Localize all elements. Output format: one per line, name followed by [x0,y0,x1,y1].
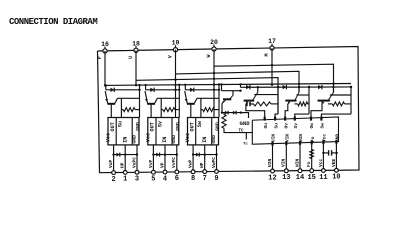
pin 5 terminal [152,170,156,174]
wire pin19 vertical [175,50,177,118]
svg-text:10: 10 [332,174,340,182]
pin 20 lead stub [213,45,215,48]
node rail V junctions [298,83,300,85]
svg-text:IN: IN [202,137,208,143]
resistor R8 on Fo lead [310,150,314,159]
svg-text:GND: GND [215,122,221,131]
wire cell U S to logic pad [275,114,278,119]
wire cell1 base bus [118,97,140,99]
wire cell V right vertical [308,87,310,114]
diode D2 upper [150,88,154,92]
wire cell U right vertical [277,87,279,114]
svg-text:UIN: UIN [267,158,273,167]
capacitor C1 between Vcc and GND leads [323,152,328,154]
wire Tc stub [245,133,247,140]
svg-text:IN: IN [162,137,168,143]
wire Q2 collector to block OUT [150,104,152,117]
svg-text:2: 2 [111,176,115,184]
wire block B3 lead to pin 9 [216,145,218,172]
driver block B1 divider left [115,118,117,145]
pin 19 lead stub [175,45,177,48]
driver block B2 divider right [171,118,173,145]
svg-text:VEE: VEE [331,158,337,167]
wire Q7 emitter down [221,103,223,112]
svg-text:7: 7 [203,175,207,183]
wire cell3 drop from rail A [184,85,186,90]
logic block bottom pad 12 [271,142,273,146]
wire RV left end to base [295,103,298,105]
svg-text:UIN: UIN [271,134,277,142]
pin 14 terminal [298,169,302,173]
wire rail U from pin18 [136,78,278,115]
wire R2 to right vertical [175,109,180,111]
svg-text:6: 6 [175,175,179,183]
driver block B3 divider right [211,118,213,145]
logic block pad Ou [264,117,266,121]
svg-text:VvP: VvP [148,159,154,168]
node cell2 right junctions [178,84,180,86]
wire logic block lead to pin 10 [335,141,337,171]
transistor Q1 upper [105,91,108,103]
svg-text:TC: TC [239,130,245,134]
pin 18 terminal [134,48,138,52]
logic block bottom pad 13 [285,141,287,145]
driver block B2 divider left [155,118,157,145]
wire cell3 base bus [197,97,219,99]
pin 11 terminal [322,169,326,173]
wire RU left end to base [252,103,253,105]
svg-text:Sv: Sv [293,123,299,129]
svg-text:Su: Su [118,121,124,127]
diode D3 upper [190,88,194,92]
wire logic block lead to pin 13 [285,142,287,171]
node bias link junction [239,90,241,92]
node cell W bus junction [350,86,352,88]
svg-text:UP: UP [120,162,126,168]
wire RW ends [345,103,352,105]
node cell V right junction [308,86,310,88]
svg-text:Sw: Sw [197,120,203,127]
svg-text:V: V [167,55,173,58]
node lower anode rail tap [239,83,241,85]
wire block B1 lead to pin 3 [136,145,138,172]
driver block B1 box [108,118,139,145]
logic block box [252,117,338,144]
wire R3 to right vertical [215,109,220,111]
pin 13 terminal [284,169,288,173]
logic block bottom pad 11 [322,140,324,144]
svg-text:13: 13 [282,174,290,182]
pin 2 terminal [112,171,116,175]
svg-text:GND: GND [175,122,181,131]
svg-text:VuPC: VuPC [131,157,137,168]
wire GND lead into logic block [241,113,249,118]
diode DW lower-driver [318,85,322,89]
transistor QU lower [244,100,255,102]
transistor Q7 bias [223,98,231,100]
svg-text:Ow: Ow [309,123,315,129]
svg-text:VwPC: VwPC [211,157,217,168]
svg-text:Fo: Fo [306,161,312,167]
wire RU ends [271,103,278,105]
svg-text:CONNECTION DIAGRAM: CONNECTION DIAGRAM [9,17,97,27]
wire logic block lead to pin 15 [311,141,313,170]
wire R7 bottom to Tc lead [224,128,252,132]
capacitor C2 on QU emitter path [245,103,248,105]
wire Q1 collector to block OUT [110,104,112,117]
svg-text:3: 3 [135,176,139,184]
wire block B3 lead link [193,154,216,156]
transistor QV lower [285,100,296,102]
wire cell2 base bus [157,97,179,99]
svg-text:P: P [97,56,103,59]
resistor R1 upper [123,108,135,112]
wire cell W S to logic pad [321,114,351,119]
node pin18 rail A junction [135,84,137,86]
svg-text:5: 5 [151,176,155,184]
logic block bottom pad 10 [335,140,337,144]
wire pin16 vertical [104,51,106,86]
node pin17 junctions [271,64,273,66]
svg-text:WIN: WIN [298,134,304,142]
wire cell1 drop from rail A [105,85,107,89]
driver block B1 divider right [131,118,133,145]
svg-text:GND: GND [240,120,251,127]
svg-text:20: 20 [210,39,218,46]
svg-text:VIN: VIN [281,158,287,167]
wire Q3 collector to block OUT [190,104,192,117]
wire lower anode rail [241,86,352,88]
svg-text:M: M [264,53,270,56]
wire cell W collector bus [330,94,351,96]
driver block B3 box [188,118,219,145]
diode D1 lower [116,153,119,157]
wire QW collector tap [333,87,335,92]
wire pin17 vertical [271,48,273,85]
pin 19 terminal [173,48,177,52]
resistor R3 upper [203,108,215,112]
pin 6 terminal [175,170,179,174]
pin 4 terminal [163,170,167,174]
wire cell2 S lead [160,98,162,117]
logic block bottom pad 15 [311,140,313,144]
svg-text:Vcc: Vcc [318,158,324,167]
svg-text:12: 12 [268,174,276,182]
wire logic block lead to pin 14 [299,142,301,171]
node cell3 rail A tap [184,84,186,86]
node cell2 rail A tap [144,84,146,86]
svg-text:Sv: Sv [157,120,163,127]
pin 1 terminal [123,171,127,175]
svg-text:16: 16 [101,41,109,48]
svg-text:GND: GND [131,135,137,144]
wire cell3 anode rail [185,89,219,91]
node cell3 right junctions [218,83,220,85]
pin 16 lead stub [104,46,106,49]
pin 7 terminal [203,170,207,174]
wire bias diode row [222,112,246,114]
pin 17 terminal [270,46,274,50]
svg-text:GND: GND [135,122,141,131]
wire logic block lead to pin 11 [322,141,324,171]
wire block B3 lead to pin 7 [204,145,206,172]
svg-text:W: W [206,54,212,57]
wire pin20 vertical [213,49,215,118]
svg-text:WIN: WIN [294,158,300,167]
svg-text:1: 1 [123,176,127,184]
wire cell3 right vertical [218,85,220,118]
svg-text:18: 18 [132,40,140,47]
wire logic block lead to pin 12 [272,142,274,171]
wire bias top link [222,90,241,92]
svg-text:VuP: VuP [108,159,114,168]
pin 8 terminal [191,170,195,174]
diode DU lower-driver [246,85,250,89]
wire cell U collector bus [254,94,278,96]
transistor QW lower [318,100,330,102]
pin 10 terminal [335,168,339,172]
svg-text:OUT: OUT [150,122,156,131]
node cell1 rail A tap [105,84,107,86]
svg-text:15: 15 [307,174,315,182]
wire block B2 lead link [153,154,176,156]
node pin20 rail crossings [213,72,215,74]
wire QV emitter to logic pad [285,104,288,119]
wire block B1 lead link [114,154,137,156]
svg-text:Vcc: Vcc [146,133,152,142]
pin 20 terminal [212,47,216,51]
pin 12 terminal [271,169,275,173]
svg-text:11: 11 [319,174,327,182]
wire block B3 lead to pin 8 [192,145,194,172]
resistor R2 upper [163,108,175,112]
diode D3 lower [196,153,199,157]
svg-text:Vcc: Vcc [185,133,191,142]
svg-text:VvPC: VvPC [171,157,177,168]
wire cell V collector bus [297,94,310,96]
wire block B2 lead to pin 4 [164,145,166,172]
transistor Q3 upper [185,91,188,103]
svg-text:WP: WP [199,162,205,168]
svg-text:9: 9 [214,175,218,183]
svg-text:8: 8 [191,175,195,183]
resistor RW lower [332,102,344,106]
wire QU emitter to logic pad [246,104,265,119]
wire rail A horizontal [105,84,351,86]
wire R1 to right vertical [135,109,140,111]
svg-text:4: 4 [163,175,167,183]
node rail-A pin16 junction [104,84,106,86]
diode DV lower-driver [283,85,287,89]
wire QW emitter to logic pad [311,104,322,119]
wire cell1 S lead [120,98,122,117]
node cell U right junction [277,86,279,88]
driver block B3 divider left [195,118,197,145]
node lead link junctions [192,153,194,155]
svg-text:Ou: Ou [263,123,269,129]
svg-text:14: 14 [296,174,304,182]
svg-text:Su: Su [273,123,279,129]
wire cell2 anode rail [146,89,180,91]
node cell1 right junctions [138,84,140,86]
logic block pad Ov [284,117,286,121]
wire QV collector tap [298,87,300,92]
svg-text:19: 19 [172,40,180,47]
svg-text:Ov: Ov [283,123,289,129]
svg-text:17: 17 [268,38,276,45]
wire cell1 anode rail [106,89,140,91]
wire bias collector riser [221,85,223,91]
diode D8 bias [233,111,236,115]
wire block B1 lead to pin 1 [124,145,126,173]
wire QU collector tap [257,87,259,92]
wire cell2 right vertical [178,85,180,118]
node cell W right junction [350,86,352,88]
wire RW left end to base [328,103,332,105]
resistor R7 bias [222,114,226,128]
node cell U bus junctions [277,86,279,88]
wire cell1 right vertical [139,85,141,117]
node rail W junctions [332,82,334,84]
svg-text:U: U [128,56,134,59]
resistor RU lower [254,102,272,106]
wire block B1 lead to pin 2 [113,145,115,173]
logic block pad Sw [320,117,322,121]
pin 17 lead stub [271,44,273,47]
logic block pad Sv [294,117,296,121]
diode D7 bias [225,111,228,115]
wire pin18 vertical [135,50,137,85]
pin 3 terminal [135,170,139,174]
node bias diode row junctions [221,111,223,113]
node QU collector tap [257,86,259,88]
pin 16 terminal [103,49,107,53]
wire lower anode rail drop from rail A [240,84,242,87]
svg-text:Vcc: Vcc [106,133,112,142]
IC package outline [98,47,360,173]
logic block bottom pad 14 [299,141,301,145]
wire R7 top link [223,113,225,115]
wire cell2 drop from rail A [145,85,147,90]
transistor Q2 upper [145,91,148,103]
wire cell V S to logic pad [295,114,309,119]
node bias rail A tap [220,83,222,85]
wire rail V from pin19 [176,71,300,92]
wire cell3 S lead [200,98,202,117]
diode D1 upper [111,88,115,92]
wire rail W from pin20 [214,64,334,92]
pin 9 terminal [215,170,219,174]
pin 15 terminal [310,169,314,173]
logic block pad Ow [310,117,312,121]
diode D2 lower [156,153,159,157]
node pin19 rail crossings [174,78,176,80]
svg-text:Tc: Tc [243,143,248,147]
svg-text:VIN: VIN [285,134,291,142]
pin 18 lead stub [135,46,137,49]
node lead link junctions [152,153,154,155]
svg-text:Sw: Sw [320,123,326,129]
wire block B2 lead to pin 5 [152,145,154,172]
svg-text:VwP: VwP [188,159,194,168]
node cell V bus junction [308,86,310,88]
svg-text:IN: IN [122,137,128,143]
node lead link junctions [112,153,114,155]
svg-text:OUT: OUT [189,122,195,131]
svg-text:GND: GND [211,135,217,144]
wire RV ends [308,103,309,105]
node C1 junctions [322,152,324,154]
logic block pad Su [274,117,276,121]
svg-text:VP: VP [159,162,165,168]
wire Q7 collector up [232,91,234,96]
wire block B2 lead to pin 6 [176,145,178,172]
driver block B2 box [148,118,179,145]
svg-text:OUT: OUT [110,122,116,131]
resistor RV lower [298,102,308,106]
wire cell W right vertical [350,87,352,114]
svg-text:GND: GND [171,135,177,144]
